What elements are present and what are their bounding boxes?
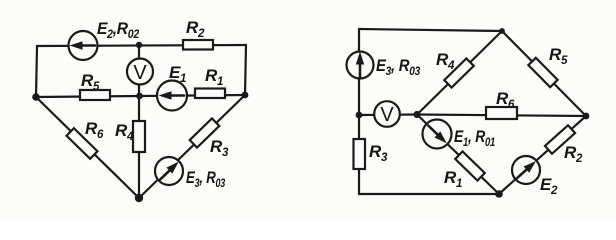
svg-text:R3: R3: [369, 142, 388, 164]
resistor R4: [133, 121, 145, 152]
wire: left circuit right side vertical: [245, 45, 246, 95]
svg-text:V: V: [380, 104, 394, 126]
resistor R5: [80, 90, 110, 100]
svg-text:R1: R1: [205, 66, 223, 88]
resistor R3 (right circuit): [354, 139, 366, 169]
junction: bridge top node: [499, 28, 505, 34]
wire: voltmeter branch horizontal: [359, 113, 417, 116]
junction: center node: [136, 93, 143, 100]
svg-text:R2: R2: [186, 18, 205, 40]
junction: right node: [242, 92, 249, 99]
wire: right circuit top side: [359, 29, 502, 31]
junction: left node: [32, 93, 40, 101]
svg-text:E2: E2: [540, 175, 558, 197]
svg-text:E3, R03: E3, R03: [376, 56, 421, 78]
wire: left circuit top side: [37, 45, 246, 46]
svg-text:E1, R01: E1, R01: [454, 127, 495, 149]
wire: left circuit middle horizontal: [36, 95, 245, 97]
source E3,R03 (right circuit): [347, 52, 374, 79]
junction: bridge bottom node: [495, 190, 503, 198]
wire: R4 branch vertical: [138, 96, 140, 198]
svg-text:E2,R02: E2,R02: [97, 19, 140, 41]
junction: right circuit left node: [356, 112, 363, 119]
svg-text:R2: R2: [564, 143, 583, 165]
svg-text:R6: R6: [85, 119, 104, 141]
junction: bridge right node: [583, 113, 590, 120]
svg-text:E1: E1: [169, 63, 186, 85]
source E1: [157, 81, 187, 111]
resistor R3: [190, 118, 220, 147]
resistor R6: [67, 128, 98, 159]
wire: left circuit left side vertical: [36, 46, 37, 97]
resistor R5 (right circuit): [528, 58, 557, 87]
svg-text:V: V: [133, 62, 147, 84]
source E2,R02: [69, 31, 98, 60]
wire: voltmeter branch vertical: [138, 45, 140, 96]
svg-text:R1: R1: [444, 168, 462, 190]
wire: left diagonal to bottom node: [36, 97, 139, 198]
resistor R2 (right circuit): [545, 125, 575, 154]
source E3,R03: [155, 157, 183, 185]
svg-text:R4: R4: [115, 121, 134, 143]
junction: bridge left node: [413, 111, 420, 118]
resistor R2: [183, 40, 213, 50]
wire: diagonal R4: [417, 31, 502, 115]
wire: right diagonal to bottom node: [139, 95, 245, 198]
svg-text:R4: R4: [436, 50, 455, 72]
resistor R1 (right circuit): [455, 151, 485, 180]
wire: right circuit bottom side: [359, 193, 499, 195]
svg-text:R3: R3: [210, 137, 229, 159]
wire: diagonal E2-R2: [499, 116, 586, 194]
resistor R4 (right circuit): [444, 58, 473, 87]
voltmeter V (left circuit): [127, 59, 153, 85]
svg-text:R5: R5: [81, 71, 100, 93]
junction: top node (V tap): [136, 42, 142, 48]
junction: bottom node: [135, 194, 143, 202]
svg-text:E3, R03: E3, R03: [186, 168, 226, 190]
wire: right circuit left side vertical: [358, 29, 360, 194]
source E2 (right circuit): [512, 156, 540, 184]
svg-text:R6: R6: [496, 89, 515, 111]
resistor R1: [195, 89, 225, 99]
wire: diagonal E1-R1: [417, 115, 499, 195]
wire: diagonal R5: [502, 31, 586, 116]
source E1,R01 (right circuit): [423, 120, 452, 149]
voltmeter V (right circuit): [374, 101, 400, 127]
resistor R6 (right circuit): [486, 107, 517, 119]
svg-text:R5: R5: [549, 45, 568, 67]
wire: middle horizontal R6: [417, 115, 586, 117]
